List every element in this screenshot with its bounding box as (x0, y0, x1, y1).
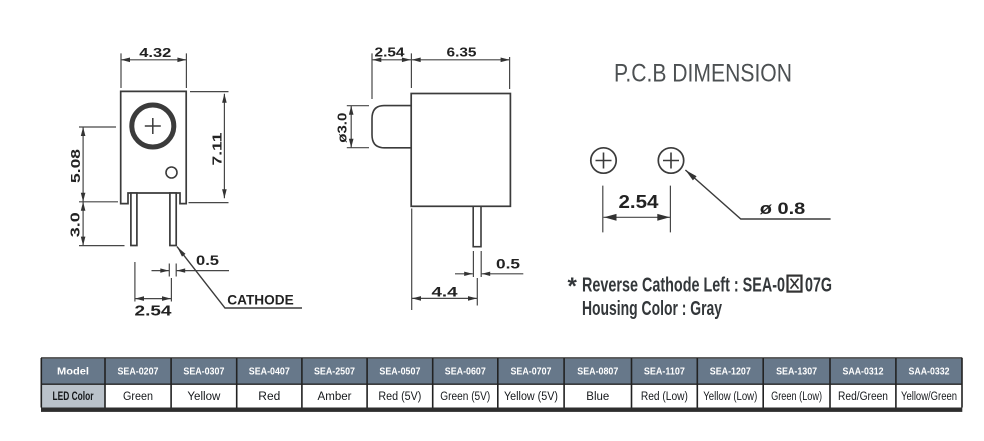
svg-text:Blue: Blue (586, 391, 609, 403)
svg-text:SAA-0332: SAA-0332 (909, 366, 950, 378)
svg-text:SEA-0707: SEA-0707 (511, 366, 552, 378)
svg-text:SAA-0312: SAA-0312 (843, 366, 884, 378)
svg-text:Yellow/Green: Yellow/Green (901, 391, 957, 403)
svg-text:Red: Red (258, 391, 280, 403)
svg-text:4.4: 4.4 (432, 283, 458, 299)
svg-text:SEA-2507: SEA-2507 (314, 366, 355, 378)
svg-text:5.08: 5.08 (68, 149, 83, 183)
svg-text:SEA-0407: SEA-0407 (249, 366, 290, 378)
svg-text:Housing Color : Gray: Housing Color : Gray (582, 298, 723, 320)
svg-text:3.0: 3.0 (68, 212, 83, 237)
svg-text:LED Color: LED Color (53, 391, 94, 403)
svg-text:Green: Green (123, 391, 153, 403)
svg-text:SEA-0307: SEA-0307 (183, 366, 224, 378)
svg-text:Model: Model (57, 366, 89, 378)
svg-text:ø 0.8: ø 0.8 (760, 199, 806, 218)
svg-text:0.5: 0.5 (496, 256, 520, 272)
svg-text:07G: 07G (805, 275, 832, 297)
svg-text:7.11: 7.11 (210, 133, 225, 166)
svg-text:Green (Low): Green (Low) (771, 391, 822, 403)
svg-text:Yellow (Low): Yellow (Low) (703, 391, 757, 403)
svg-text:2.54: 2.54 (135, 304, 172, 320)
svg-text:SEA-0807: SEA-0807 (577, 366, 618, 378)
svg-text:Red (Low): Red (Low) (641, 391, 688, 403)
svg-text:SEA-0507: SEA-0507 (379, 366, 420, 378)
svg-text:SEA-1307: SEA-1307 (776, 366, 817, 378)
svg-text:Red/Green: Red/Green (838, 391, 888, 403)
svg-text:P.C.B DIMENSION: P.C.B DIMENSION (614, 59, 792, 87)
svg-text:0.5: 0.5 (196, 252, 219, 268)
svg-text:SEA-0207: SEA-0207 (118, 366, 159, 378)
svg-text:6.35: 6.35 (447, 45, 477, 60)
svg-text:SEA-0607: SEA-0607 (445, 366, 486, 378)
svg-text:Green (5V): Green (5V) (440, 391, 490, 403)
svg-text:ø3.0: ø3.0 (335, 113, 350, 143)
svg-text:Amber: Amber (318, 391, 352, 403)
svg-text:SEA-1107: SEA-1107 (644, 366, 685, 378)
svg-text:2.54: 2.54 (375, 45, 406, 60)
svg-text:CATHODE: CATHODE (227, 292, 294, 307)
svg-text:Yellow: Yellow (187, 391, 221, 403)
svg-text:*: * (568, 273, 578, 300)
svg-text:Reverse Cathode Left : SEA-0: Reverse Cathode Left : SEA-0 (582, 275, 785, 297)
svg-text:2.54: 2.54 (619, 192, 659, 212)
svg-text:Yellow (5V): Yellow (5V) (504, 391, 558, 403)
svg-text:SEA-1207: SEA-1207 (710, 366, 751, 378)
svg-text:4.32: 4.32 (139, 45, 171, 60)
svg-text:Red (5V): Red (5V) (378, 391, 421, 403)
